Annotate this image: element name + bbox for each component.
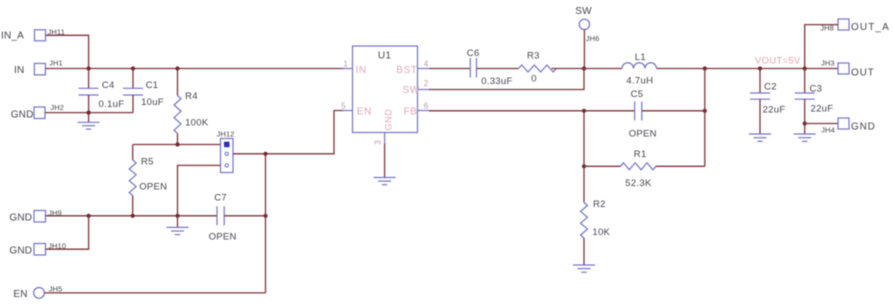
inductor L1 [622,52,657,87]
junction gnd node [87,111,91,115]
svg-text:0: 0 [531,74,537,85]
wire IN rail JH1 to U1 pin1 [45,68,344,70]
op-amp U1 [341,46,429,145]
connector JH11 [35,27,65,41]
ground below C4 [78,113,100,130]
wire FB to divider node [583,111,585,167]
junction FB node [582,109,586,113]
svg-text:0.1uF: 0.1uF [99,99,125,110]
ground below R2 [573,265,595,272]
svg-text:C4: C4 [102,80,115,91]
capacitor C2 [750,69,785,135]
svg-text:100K: 100K [185,117,209,128]
resistor R1 [584,149,705,189]
capacitor C5 [629,89,705,139]
svg-text:GND: GND [11,110,34,121]
resistor R5 [129,145,167,216]
svg-text:4.7uH: 4.7uH [626,76,653,87]
svg-text:C6: C6 [467,48,480,59]
svg-text:R4: R4 [185,91,198,102]
svg-text:GND: GND [9,246,32,257]
svg-text:JH3: JH3 [821,58,835,67]
svg-text:JH4: JH4 [821,126,835,135]
svg-text:L1: L1 [635,52,646,63]
wire R3 to L1 [552,68,623,70]
svg-text:22uF: 22uF [811,104,834,115]
svg-text:OPEN: OPEN [209,232,237,243]
resistor R3 [519,51,557,85]
svg-text:0.33uF: 0.33uF [481,76,512,87]
svg-text:IN_A: IN_A [1,31,24,42]
wire JH10 to rail [46,216,89,249]
svg-text:6: 6 [424,102,429,111]
svg-text:BST: BST [396,65,417,76]
connector JH4 [821,118,875,135]
connector JH5 [34,284,63,298]
capacitor C7 [209,193,266,243]
junction IN/R4 [175,66,179,70]
connector JH2 [34,103,64,119]
svg-text:JH1: JH1 [49,58,63,67]
svg-text:JH5: JH5 [49,284,63,293]
svg-text:GND: GND [9,213,32,224]
junction VOUT/C3-JH8 [803,66,807,70]
svg-text:IN: IN [356,65,367,76]
wire BST to C6 [429,68,470,70]
wire U1 SW pin riser [429,69,584,90]
wire FB row [429,110,635,112]
wire C6 to R3 [477,68,519,70]
wire VOUT rail [657,68,839,70]
ground on rail [167,216,189,235]
svg-text:2: 2 [424,79,429,88]
resistor R4 [174,69,209,145]
svg-text:10uF: 10uF [141,97,164,108]
junction rail/JH12pin3 [175,214,179,218]
svg-text:JH6: JH6 [586,34,600,43]
svg-text:22uF: 22uF [763,105,786,116]
wire row R5/R4/JH12 pin1 [133,144,221,146]
wire JH11 to IN node [46,35,89,68]
wire VOUT feedback vertical [704,69,706,167]
capacitor C1 [123,69,164,113]
svg-text:C1: C1 [146,80,159,91]
svg-text:JH12: JH12 [217,130,235,139]
junction rail/R5 [131,214,135,218]
ground below U1 [374,178,396,185]
connector JH6 [579,19,599,43]
svg-text:3: 3 [374,140,383,145]
junction C5 right/vertical [703,109,707,113]
capacitor C3 [795,69,834,124]
wire JH8 to VOUT [805,25,838,69]
svg-text:C7: C7 [214,193,227,204]
connector JH1 [34,58,62,75]
svg-text:5: 5 [341,101,346,110]
svg-text:4: 4 [424,59,429,68]
wire EN row [44,292,265,294]
svg-text:OPEN: OPEN [139,181,167,192]
svg-text:R5: R5 [141,156,154,167]
connector JH8 [820,19,890,33]
junction C3/JH4 [803,121,807,125]
svg-text:SW: SW [575,6,592,17]
junction VOUT/C2 [758,66,762,70]
svg-text:52.3K: 52.3K [625,178,652,189]
svg-text:OPEN: OPEN [629,129,657,140]
junction C7/EN vertical [263,214,267,218]
svg-text:JH2: JH2 [50,103,64,112]
wire JH2 to gnd node [45,112,133,114]
svg-text:C2: C2 [764,82,777,93]
svg-text:R1: R1 [634,149,647,160]
junction SW node [582,66,586,70]
svg-text:FB: FB [404,107,418,118]
svg-text:1: 1 [343,59,348,68]
capacitor C4 [79,69,125,113]
capacitor C6 [467,48,513,87]
svg-text:SW: SW [403,85,420,96]
wire JH6 to SW node [583,30,585,69]
connector JH12 [217,130,235,173]
svg-text:EN: EN [357,107,372,118]
svg-text:OUT_A: OUT_A [851,22,890,33]
junction rail/JH10 [87,214,91,218]
ground below C2 [749,134,771,141]
svg-text:10K: 10K [592,227,610,238]
svg-text:VOUT=5V: VOUT=5V [755,55,801,66]
junction IN/C1 [131,66,135,70]
connector JH9 [34,209,62,223]
junction VOUT/feedback [703,66,707,70]
wire GND rail JH9 to C7 [46,215,218,217]
svg-text:OUT: OUT [851,68,875,79]
svg-text:R3: R3 [527,51,540,62]
svg-text:IN: IN [14,65,24,76]
svg-text:EN: EN [13,289,27,300]
junction R4 bottom [175,142,179,146]
svg-text:GND: GND [384,109,394,131]
wire C3 to JH4 [805,123,838,125]
ground below C3 [794,124,816,142]
connector JH3 [821,58,875,78]
wire JH12 pin3 to ground [178,165,221,215]
junction EN net [263,152,267,156]
svg-text:U1: U1 [378,50,392,61]
connector JH10 [34,241,66,255]
wire JH12 pin2 to U1 EN [233,111,344,154]
wire U1 GND pin to ground [384,144,386,178]
junction divider node [582,164,586,168]
svg-text:C5: C5 [631,89,644,100]
svg-text:R2: R2 [593,199,606,210]
wire EN vertical [265,154,267,293]
resistor R2 [581,166,611,265]
junction IN/JH11 [87,66,91,70]
svg-text:GND: GND [851,122,876,133]
